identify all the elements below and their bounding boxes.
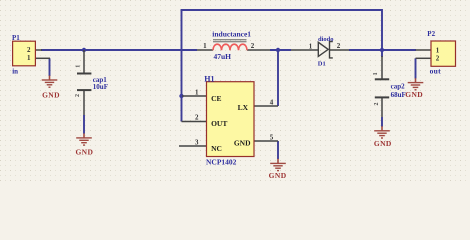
svg-text:H1: H1 [204, 74, 214, 83]
svg-text:GND: GND [405, 90, 423, 99]
svg-text:LX: LX [238, 103, 249, 112]
svg-text:2: 2 [337, 42, 341, 50]
svg-text:2: 2 [374, 103, 380, 106]
svg-text:inductance1: inductance1 [212, 30, 251, 39]
svg-text:diodo: diodo [318, 36, 334, 43]
svg-text:NC: NC [211, 144, 222, 153]
svg-text:in: in [12, 67, 18, 75]
svg-text:GND: GND [234, 139, 251, 148]
svg-text:NCP1402: NCP1402 [206, 158, 237, 167]
svg-text:1: 1 [27, 54, 31, 62]
svg-text:P2: P2 [427, 30, 435, 38]
svg-text:cap2: cap2 [391, 83, 406, 91]
svg-text:P1: P1 [12, 34, 20, 42]
svg-text:GND: GND [42, 90, 60, 99]
svg-text:1: 1 [195, 89, 199, 97]
svg-text:2: 2 [195, 114, 199, 122]
svg-text:10uF: 10uF [93, 83, 108, 91]
svg-text:1: 1 [373, 72, 379, 75]
svg-text:5: 5 [270, 134, 274, 142]
svg-text:GND: GND [269, 171, 287, 180]
svg-text:2: 2 [251, 42, 255, 50]
svg-text:GND: GND [75, 147, 93, 156]
svg-text:2: 2 [75, 94, 81, 97]
svg-text:out: out [430, 66, 442, 75]
svg-text:CE: CE [211, 94, 221, 103]
svg-text:68uF: 68uF [391, 91, 406, 99]
svg-text:1: 1 [203, 42, 207, 50]
svg-text:3: 3 [195, 139, 199, 147]
svg-text:1: 1 [76, 65, 82, 68]
svg-text:2: 2 [436, 55, 440, 63]
svg-text:2: 2 [27, 46, 31, 54]
svg-text:47uH: 47uH [214, 52, 232, 61]
svg-text:OUT: OUT [211, 119, 227, 128]
svg-text:1: 1 [309, 42, 313, 50]
svg-text:D1: D1 [318, 60, 326, 67]
svg-text:4: 4 [270, 99, 274, 107]
svg-text:1: 1 [436, 46, 440, 54]
svg-text:GND: GND [374, 139, 392, 148]
